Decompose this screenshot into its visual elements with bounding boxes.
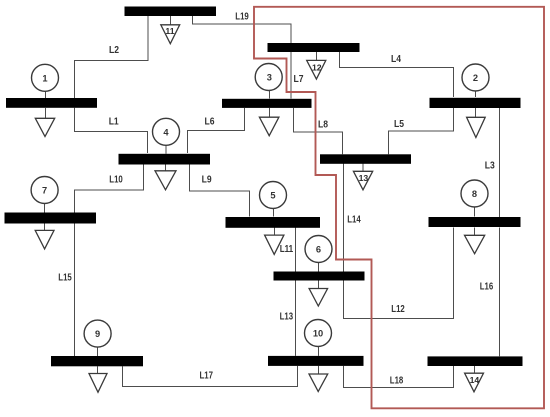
svg-text:L17: L17 [200,371,214,382]
svg-text:L1: L1 [109,116,120,127]
svg-text:L3: L3 [485,161,496,172]
svg-text:2: 2 [473,73,478,83]
svg-text:4: 4 [163,127,169,137]
svg-text:L10: L10 [109,175,123,186]
svg-text:12: 12 [312,62,322,72]
svg-text:L13: L13 [280,311,294,322]
svg-text:L11: L11 [280,244,294,255]
svg-text:13: 13 [359,173,369,183]
svg-text:L9: L9 [202,175,213,186]
svg-text:L6: L6 [205,116,216,127]
svg-text:9: 9 [95,329,100,339]
svg-text:L15: L15 [58,273,72,284]
svg-text:10: 10 [313,329,323,339]
svg-text:7: 7 [42,186,47,196]
svg-text:5: 5 [270,191,275,201]
svg-text:8: 8 [472,189,477,199]
svg-text:14: 14 [470,375,480,385]
svg-text:L12: L12 [391,304,405,315]
svg-text:L2: L2 [109,45,119,56]
svg-text:L19: L19 [235,11,249,22]
svg-text:L14: L14 [347,215,361,226]
svg-text:L4: L4 [391,54,402,65]
svg-text:L16: L16 [480,281,494,292]
svg-text:L5: L5 [394,119,405,130]
svg-text:L8: L8 [318,119,329,130]
svg-text:L7: L7 [294,74,304,85]
svg-text:1: 1 [42,74,47,84]
svg-text:6: 6 [316,245,321,255]
svg-text:3: 3 [267,73,272,83]
svg-text:11: 11 [165,26,174,36]
svg-text:L18: L18 [390,376,404,387]
